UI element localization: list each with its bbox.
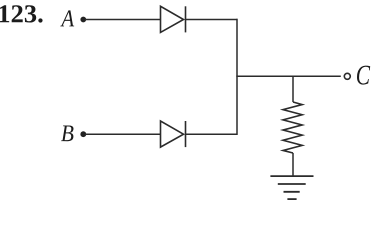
node B label bbox=[61, 126, 73, 142]
question number 123. bbox=[0, 5, 43, 22]
node B terminal dot bbox=[80, 131, 86, 137]
node C label bbox=[357, 66, 370, 85]
wire resistor to ground bbox=[292, 153, 294, 176]
wire D2 cathode to bus bbox=[186, 133, 238, 135]
wire output node to terminal C bbox=[236, 75, 340, 77]
node A terminal dot bbox=[80, 17, 86, 23]
diode D1 (input A) bbox=[161, 6, 186, 32]
wire junction down to resistor R1 bbox=[292, 76, 294, 102]
wire D1 cathode to bus bbox=[186, 19, 238, 21]
wire A input to diode D1 bbox=[85, 19, 161, 21]
node C open terminal bbox=[344, 73, 350, 79]
node A label bbox=[60, 10, 74, 26]
wire B input to diode D2 bbox=[85, 133, 161, 135]
wire vertical bus joining D1 and D2 bbox=[236, 19, 238, 135]
diode D2 (input B) bbox=[161, 121, 186, 147]
ground bbox=[270, 176, 313, 199]
resistor R1 bbox=[283, 102, 302, 153]
